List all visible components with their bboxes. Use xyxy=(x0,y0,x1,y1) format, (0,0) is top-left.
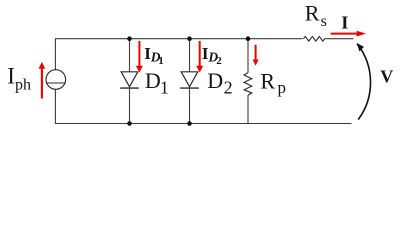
label D2 xyxy=(207,68,232,98)
svg-text:p: p xyxy=(278,78,287,97)
wire top rail left segment xyxy=(55,38,303,40)
resistor Rs zigzag xyxy=(303,37,324,42)
wire left rail lower xyxy=(54,89,56,123)
diode D1 triangle xyxy=(121,72,138,87)
svg-text:V: V xyxy=(380,67,393,87)
svg-text:R: R xyxy=(305,0,320,25)
red arrow ID2 xyxy=(196,41,203,73)
diode D1 cathode bar xyxy=(120,87,139,89)
wire Rp bottom lead xyxy=(247,95,249,123)
wire left rail upper xyxy=(54,39,56,70)
label Rp xyxy=(260,69,286,97)
diode D2 triangle xyxy=(181,72,198,87)
current source Iph bar xyxy=(46,82,66,84)
wire D1 anode lead xyxy=(129,39,131,72)
red arrow Iph xyxy=(39,62,46,99)
node D1 top junction dot xyxy=(127,36,132,41)
label ID2 xyxy=(202,44,222,67)
current source Iph circle xyxy=(46,70,66,90)
wire D2 cathode lead xyxy=(189,88,191,123)
wire D2 anode lead xyxy=(189,39,191,72)
resistor Rp zigzag xyxy=(244,73,252,95)
svg-text:D: D xyxy=(207,68,223,93)
svg-text:ph: ph xyxy=(15,77,31,94)
red arrow I output current xyxy=(331,31,366,37)
svg-text:s: s xyxy=(321,13,327,30)
wire top rail right segment xyxy=(325,38,354,40)
svg-text:I: I xyxy=(7,64,15,89)
label D1 xyxy=(145,68,169,98)
node D1 bottom junction dot xyxy=(127,121,132,126)
svg-text:2: 2 xyxy=(216,55,222,67)
node D2 bottom junction dot xyxy=(187,121,192,126)
wire bottom rail xyxy=(55,123,352,125)
red arrow ID1 xyxy=(136,41,143,73)
wire D1 cathode lead xyxy=(129,88,131,123)
node Rp top junction dot xyxy=(246,36,251,41)
wire Rp top lead xyxy=(247,39,249,73)
svg-text:D: D xyxy=(145,68,161,93)
diode D2 cathode bar xyxy=(180,87,199,89)
label ID1 xyxy=(144,44,164,67)
svg-text:R: R xyxy=(260,69,275,94)
svg-text:I: I xyxy=(341,13,348,33)
svg-text:2: 2 xyxy=(224,78,233,98)
svg-text:1: 1 xyxy=(158,55,164,67)
voltage arc V xyxy=(357,43,371,120)
red arrow Rp current xyxy=(253,45,259,66)
node D2 top junction dot xyxy=(187,36,192,41)
svg-text:1: 1 xyxy=(160,78,169,98)
